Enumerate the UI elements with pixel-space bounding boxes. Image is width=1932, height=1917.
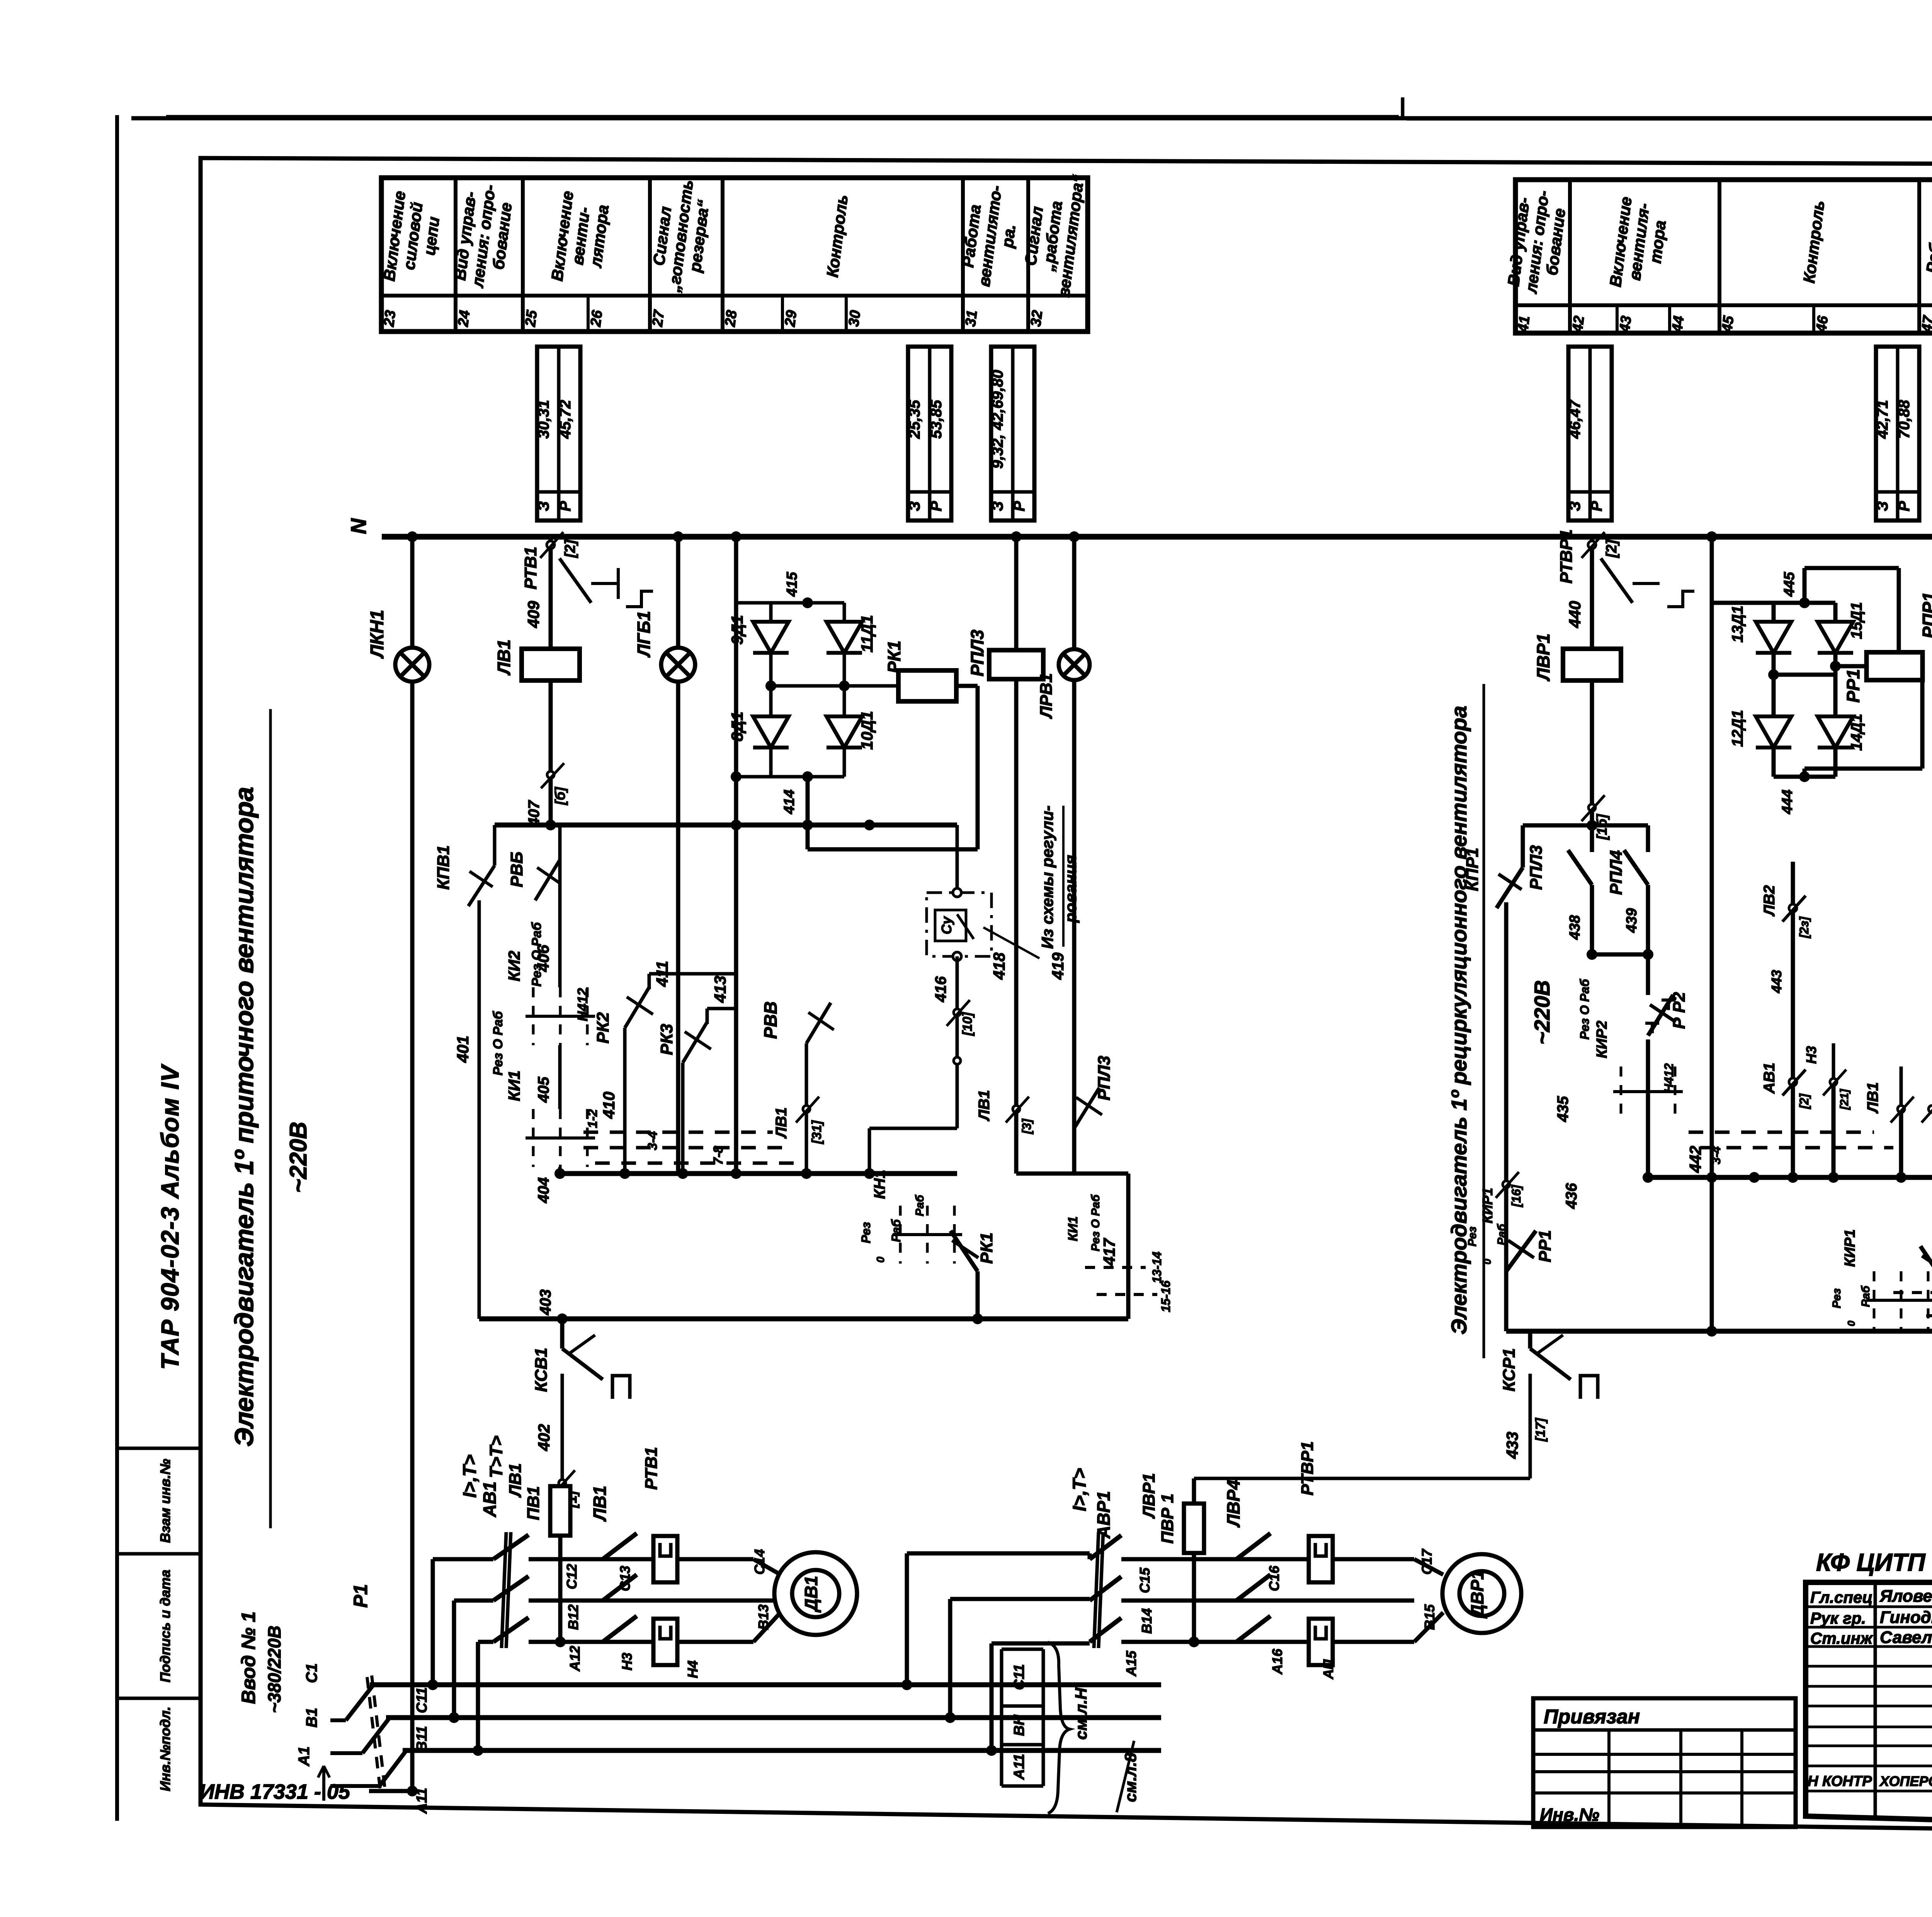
svg-text:С15: С15 [1137,1567,1153,1593]
motor ДВ1 [774,1552,857,1635]
contact РПЛ4 [1646,825,1650,852]
svg-text:27: 27 [650,309,668,328]
wire right bridge bottom elbow [1712,776,1774,777]
svg-text:А11: А11 [1011,1754,1027,1780]
svg-text:КФ ЦИТП инв 17331-05: КФ ЦИТП инв 17331-05 [1816,1548,1932,1576]
svg-text:0: 0 [1845,1320,1857,1326]
fuse ПВ1 [550,1486,570,1536]
wire tap В elbow to АВР1 [948,1599,952,1718]
dashed ticks 13-14 15-16 right [1893,1291,1932,1294]
svg-text:Электродвигатель 1º приточного: Электродвигатель 1º приточного вентилято… [230,787,259,1447]
svg-text:[10]: [10] [960,1012,975,1036]
svg-text:415: 415 [784,572,800,597]
phase line В11 [386,1715,1161,1720]
svg-text:28: 28 [722,309,740,328]
svg-text:[2]: [2] [562,539,578,558]
svg-text:Р: Р [1011,501,1028,511]
svg-text:КСР1: КСР1 [1500,1348,1519,1391]
svg-text:З: З [906,501,923,511]
svg-text:442: 442 [1686,1146,1704,1173]
wire row1 to motor [677,1557,753,1561]
contactor ЛВР1 blade 2 [1236,1575,1270,1601]
node 445 [1799,597,1810,608]
diode 12Д1 [1772,675,1776,717]
node bus ЛГБ1 junction [673,531,684,542]
frame outer left border line [115,115,119,1821]
svg-text:Н3: Н3 [619,1653,635,1670]
wire rail 404 horizontal [560,1171,957,1176]
wire РВВ branch lower [806,1043,807,1174]
svg-text:I>,Т>: I>,Т> [1070,1468,1090,1511]
switch Р1 blade 3 [379,1750,407,1786]
wire rail 436 horizontal right [1648,1175,1932,1180]
svg-text:Савелова: Савелова [1880,1628,1932,1647]
wire 405 segment [558,1045,562,1109]
wire 411 branch ЛГБ1 [676,537,680,1174]
wire rail 403 horizontal [479,1317,1128,1322]
wire right bridge bottom rail 444 [1774,775,1835,779]
wire ЛКН1 to feeder stub [407,1786,418,1796]
svg-text:Н3: Н3 [1803,1046,1819,1064]
svg-text:РВВ: РВВ [760,1001,781,1039]
contactor ЛВ1 blade 1 [603,1533,637,1559]
svg-text:КИ1: КИ1 [505,1070,523,1101]
circuit breaker АВР1 [1090,1535,1121,1559]
svg-text:Ст.инж: Ст.инж [1810,1629,1873,1647]
svg-text:РПР1: РПР1 [1919,592,1932,638]
svg-text:[2]: [2] [1797,1093,1811,1109]
wire bridge bottom elbow [736,775,771,779]
selector КИ1 Рез-О-Раб [526,1109,595,1167]
svg-text:ТАР 904-02-3 Альбом IV: ТАР 904-02-3 Альбом IV [156,1063,184,1370]
wire tap В12 [452,1601,456,1718]
svg-text:ПВ1: ПВ1 [524,1486,543,1520]
svg-text:445: 445 [1781,572,1798,597]
svg-text:ДВ1: ДВ1 [801,1576,821,1613]
contact РК1 to rail 403 [976,1271,980,1319]
svg-text:КИ1: КИ1 [1066,1216,1080,1241]
node tap С12 [427,1679,438,1690]
svg-text:РТВР1: РТВР1 [1557,529,1576,583]
contact РПЛ3 on 419 [1074,1128,1075,1174]
svg-text:10Д1: 10Д1 [858,711,876,750]
svg-text:1-2: 1-2 [585,1109,600,1128]
frame top border thick overscan segment [166,115,1399,118]
svg-text:[16]: [16] [1509,1184,1523,1207]
relay coil ЛВ1 [522,649,580,680]
wire tap С elbow to АВР1 [905,1553,909,1685]
contactor ЛВР1 blade 3 [1236,1616,1270,1642]
contact ЛВР1 aux right [1929,1106,1932,1112]
wire 418 branch [1014,537,1019,1174]
wire ЛКН1 branch vertical [410,537,415,1791]
svg-text:438: 438 [1567,915,1583,940]
node 415 [802,597,813,608]
svg-text:Ввод № 1: Ввод № 1 [238,1611,259,1704]
svg-text:32: 32 [1028,309,1046,327]
fuse ПВР1 [1184,1504,1204,1553]
svg-text:Рез: Рез [1830,1288,1843,1308]
svg-text:7-8: 7-8 [711,1146,726,1165]
svg-text:410: 410 [600,1092,618,1119]
node fuse tap on А12 row [555,1636,566,1647]
wire 439 segment [1646,885,1650,954]
reference table wires 30,31/45,72 [535,347,580,520]
svg-text:А16: А16 [1269,1648,1285,1675]
contact mark [1] on 402 [559,1480,566,1487]
svg-text:А15: А15 [1123,1650,1139,1677]
contact АВ1 [2] right [1791,862,1795,1177]
contact РВВ [805,1043,808,1174]
selector КН1 Рез-О-Раб with РК1 [893,1206,962,1264]
relay coil ЛВР1 [1563,649,1621,680]
wire КПВ1 branch [493,825,497,866]
wire 409 branch with РТВ1 [549,537,553,647]
svg-text:Р: Р [557,501,574,511]
svg-text:Рез О Раб: Рез О Раб [529,922,544,987]
diode 8Д1 [769,686,773,717]
wire 402 [561,1374,564,1509]
svg-text:44: 44 [1669,315,1687,333]
svg-text:30,31: 30,31 [535,400,552,439]
circuit breaker АВ1 [493,1535,529,1559]
wire row3 to motor right [1333,1640,1414,1644]
svg-text:[31]: [31] [810,1120,824,1144]
wire right bridge top rail 445 [1712,601,1835,605]
svg-text:Подпись и дата: Подпись и дата [157,1570,173,1682]
node bus ЛКН1 junction [407,531,418,542]
svg-text:Раб: Раб [1495,1223,1508,1245]
svg-text:ЛВ2: ЛВ2 [1761,885,1778,917]
svg-text:42: 42 [1570,315,1588,333]
brace см.л.Н [1048,1642,1070,1813]
wire tap А elbow to АВР1 [990,1643,994,1750]
svg-text:РК3: РК3 [657,1024,676,1055]
phase line А11 [403,1748,1161,1753]
control device Су dash-dot box [927,893,992,956]
wire РР1 return loop to node 444 [1920,666,1925,769]
wire 433 horizontal to ПВР1 [1194,1477,1530,1480]
svg-text:Н4: Н4 [685,1660,701,1678]
svg-text:45,72: 45,72 [557,400,574,439]
svg-text:КПВ1: КПВ1 [434,845,453,890]
contact mark [17] on 433 [1529,1405,1532,1408]
switch Р1 link bar [367,1677,381,1793]
lamp ЛКН1 [395,648,429,682]
wire 438-439 link [1592,953,1648,957]
svg-text:416: 416 [932,976,949,1002]
svg-text:ИНВ 17331 - 05: ИНВ 17331 - 05 [199,1780,350,1803]
svg-text:[17]: [17] [1533,1417,1548,1442]
contact Н3 [2] right [1830,1078,1837,1085]
svg-text:46: 46 [1813,315,1832,333]
svg-text:419: 419 [1049,952,1067,980]
motor ДВР1 [1442,1554,1521,1633]
node bus bridge feed junction [731,531,742,542]
diode 14Д1 [1833,675,1838,717]
svg-text:КСВ1: КСВ1 [532,1348,551,1392]
callout line to regulation scheme note [983,927,1039,958]
svg-text:439: 439 [1624,908,1640,933]
wire Су branch [956,825,959,893]
thermal РТВР1 element bottom [1309,1619,1333,1665]
svg-text:КИР2: КИР2 [1594,1021,1610,1058]
svg-text:31: 31 [963,309,981,327]
thermal РТВ1 element top [653,1536,677,1582]
switch КСВ1 [560,1319,565,1349]
bus N horizontal line [382,534,1932,540]
node rail-401 dots [545,820,556,830]
svg-text:Раб: Раб [913,1194,926,1216]
node tap В11 right motor [945,1712,956,1723]
reference table wires 9,32,42,69,80 [989,347,1034,520]
contact РПЛ3 right block [1590,825,1594,852]
svg-text:402: 402 [535,1424,553,1451]
wire КПВ1 down to rail 403 [478,900,481,1319]
wire rail 434 horizontal [1506,1329,1932,1334]
svg-text:30: 30 [846,309,864,327]
node rail-436 dots [1643,1172,1653,1183]
svg-text:11Д1: 11Д1 [858,615,876,652]
svg-text:КИР1: КИР1 [1842,1229,1858,1267]
svg-text:ЛВР1: ЛВР1 [1139,1473,1158,1519]
switch Р1 blade 2 [362,1717,390,1753]
contact РТВ1 thermal release [547,541,554,549]
svg-text:~380/220В: ~380/220В [264,1626,284,1713]
sidebar cell divider 1 [117,1447,201,1450]
sidebar cell divider 3 [117,1697,201,1700]
svg-text:В11: В11 [414,1726,430,1752]
svg-text:3-4: 3-4 [645,1131,660,1150]
svg-text:РПЛ4: РПЛ4 [1607,850,1626,895]
wire rail 437 horizontal [1523,823,1648,828]
svg-text:9Д1: 9Д1 [728,615,746,645]
svg-text:А12: А12 [567,1646,583,1672]
switch Р1 input stubs [330,1718,346,1722]
selector КИ2 Рез-О-Раб [526,987,595,1045]
svg-text:АВ1: АВ1 [1761,1063,1778,1094]
svg-text:Р: Р [1896,501,1913,511]
binding table Привязан [1533,1698,1796,1827]
svg-text:Рук гр.: Рук гр. [1810,1609,1866,1627]
wire 433 [1529,1374,1532,1478]
sidebar cell divider 2 [117,1552,201,1556]
wire bridge feed vertical 413 [734,537,738,1174]
svg-text:ЛГБ1: ЛГБ1 [634,611,654,658]
svg-text:РВБ: РВБ [507,852,526,887]
svg-text:435: 435 [1554,1096,1571,1122]
svg-text:I>,Т>: I>,Т> [460,1454,480,1498]
svg-text:~220В: ~220В [1530,980,1554,1045]
svg-text:КПР1: КПР1 [1463,848,1482,891]
pushbutton КПР1 [1521,825,1525,867]
node tap А12 [473,1745,483,1756]
wire 416 segment [956,956,959,1078]
svg-text:Рез: Рез [859,1222,873,1243]
diode 15Д1 [1833,603,1838,621]
wire 419 branch [1072,537,1077,1174]
svg-text:440: 440 [1566,601,1584,628]
svg-text:РР1: РР1 [1843,669,1863,703]
svg-text:ПВР 1: ПВР 1 [1158,1493,1177,1543]
wire row2 В15 [1121,1599,1414,1603]
contactor ЛВ1 blade 3 [603,1616,637,1642]
contact РВБ [535,860,560,900]
svg-text:Р: Р [928,501,945,511]
wire row1 С13 [529,1557,654,1561]
phase feeder stub А1 [369,1789,412,1793]
wire row3 А16 [1121,1640,1309,1644]
svg-text:24: 24 [455,309,473,328]
reference table wires 42,71/70,88 [1874,347,1919,520]
node bus ЛРВ1 junction [1069,531,1080,542]
svg-text:443: 443 [1769,970,1784,993]
wire row3 to motor [677,1640,753,1644]
svg-text:РПЛ3: РПЛ3 [1095,1056,1114,1101]
node bus right bridge junction [1706,531,1717,542]
contact ЛВ1 [1] [956,1078,959,1128]
wire 406 segment [558,825,562,987]
wire 442 feed vertical [1710,537,1714,1177]
svg-text:Рез О Раб: Рез О Раб [1578,978,1592,1039]
svg-text:В13: В13 [755,1604,771,1630]
svg-text:З: З [535,501,552,511]
svg-text:С11: С11 [1011,1664,1027,1690]
svg-text:13-14: 13-14 [1150,1252,1164,1283]
svg-text:3-4: 3-4 [1709,1146,1723,1164]
svg-text:15Д1: 15Д1 [1848,602,1865,639]
svg-text:[3]: [3] [1020,1118,1034,1134]
svg-text:25: 25 [522,309,541,328]
node bus РПЛ3 junction [1011,531,1022,542]
dashed link group left [583,1131,773,1134]
svg-text:ЛВ1: ЛВ1 [976,1090,993,1122]
svg-text:ЛКН1: ЛКН1 [367,610,388,659]
svg-text:РК1: РК1 [977,1233,996,1264]
svg-text:436: 436 [1563,1183,1580,1209]
svg-text:ХОПЕРСТКОВА: ХОПЕРСТКОВА [1879,1773,1932,1789]
svg-text:С14: С14 [752,1549,767,1575]
svg-text:25,35: 25,35 [906,400,923,439]
svg-text:Из схемы регули-: Из схемы регули- [1038,806,1056,949]
svg-text:Раб: Раб [1859,1285,1872,1307]
wire 445 top elbow [1803,568,1807,603]
svg-text:В12: В12 [565,1604,581,1630]
dashed link group right [1689,1131,1874,1134]
svg-text:Взам инв.№: Взам инв.№ [157,1459,173,1543]
svg-text:ЛВ1: ЛВ1 [590,1486,610,1522]
node tap С11 right motor [901,1679,912,1690]
svg-text:Рез: Рез [1466,1226,1479,1247]
svg-text:А11: А11 [414,1788,430,1814]
signal header table left block [380,173,1088,332]
label box ВН С11 АН [1000,1649,1003,1786]
svg-text:Инв.№: Инв.№ [1540,1805,1599,1825]
svg-text:ДВР1: ДВР1 [1467,1570,1487,1619]
relay coil РК1 [898,670,956,701]
contact ЛВ1 aux right [1898,1106,1905,1112]
svg-text:46,47: 46,47 [1566,399,1583,439]
svg-text:41: 41 [1515,315,1533,333]
svg-text:Яловецкий: Яловецкий [1879,1587,1932,1606]
svg-text:9,32, 42,69,80: 9,32, 42,69,80 [989,370,1006,469]
wire bridge top rail 415 [736,601,844,605]
svg-text:С16: С16 [1266,1565,1282,1591]
wire КПР1 branch down [1504,902,1509,1331]
contact mark [б] on wire 407 [547,771,554,778]
wire row2 В13 [529,1599,775,1603]
svg-text:[21]: [21] [1838,1089,1851,1110]
svg-text:ЛВР4: ЛВР4 [1223,1480,1243,1527]
wire 417 corner [1016,1172,1128,1176]
contact РР2 with КИР2 [1646,954,1650,995]
svg-text:[2]: [2] [1604,539,1620,558]
svg-text:см.л.Н: см.л.Н [1072,1687,1090,1740]
svg-text:[2з]: [2з] [1797,916,1811,939]
svg-text:42,71: 42,71 [1874,400,1891,439]
svg-text:403: 403 [537,1289,554,1316]
svg-text:417: 417 [1100,1238,1118,1266]
svg-text:43: 43 [1617,315,1635,333]
frame tick mark above top border [1401,97,1405,118]
svg-text:РПЛ3: РПЛ3 [1527,845,1546,890]
svg-text:ЛРВ1: ЛРВ1 [1037,673,1056,719]
svg-text:Р Р2: Р Р2 [1670,992,1689,1029]
svg-text:404: 404 [535,1177,552,1204]
svg-text:ЛВ1: ЛВ1 [1864,1082,1881,1114]
wire bridge bottom rail 414 [771,775,844,779]
svg-text:Р: Р [1588,501,1605,511]
svg-text:АП: АП [1320,1659,1336,1679]
pushbutton КПВ1 [468,866,495,906]
svg-text:23: 23 [381,309,399,328]
wire below ЛВР1 coil [1590,682,1594,825]
svg-text:С13: С13 [617,1566,633,1591]
svg-text:Н412: Н412 [575,988,590,1021]
phase line С11 [370,1682,1161,1687]
selector КИР1 Рез-О-Раб [1866,1271,1932,1329]
wire row1 С16 [1121,1557,1309,1561]
svg-text:0: 0 [874,1257,886,1263]
wire tap А12 [476,1642,480,1750]
svg-text:З: З [1874,501,1891,511]
svg-text:Р1: Р1 [350,1584,371,1607]
svg-text:В14: В14 [1139,1608,1155,1634]
svg-text:Н412: Н412 [1662,1063,1676,1093]
node tap А11 right motor [986,1745,997,1756]
svg-text:РПЛ3: РПЛ3 [967,629,987,676]
signal header table right block [1504,180,1932,333]
svg-text:РТВ1: РТВ1 [642,1447,661,1490]
relay coil РПЛ3 [989,650,1043,679]
svg-text:401: 401 [454,1036,472,1063]
svg-text:47: 47 [1919,314,1932,333]
wire РК1 to bridge [885,684,898,688]
wire tap С12 [431,1559,435,1685]
svg-text:АВР1: АВР1 [1094,1491,1114,1539]
svg-text:КИ2: КИ2 [505,951,523,981]
svg-text:444: 444 [1779,789,1796,814]
selector КИР2 Рез-О-Раб [1613,1067,1683,1117]
svg-text:РК1: РК1 [884,641,904,674]
diode 9Д1 [769,603,773,621]
svg-text:А1: А1 [296,1746,313,1766]
contact mark [1б] on ЛВР1 wire [1588,804,1595,811]
contact РТВР1 thermal release [1588,541,1596,549]
svg-text:РР1: РР1 [1536,1230,1554,1262]
svg-text:ВН: ВН [1011,1714,1027,1736]
svg-text:Раб: Раб [889,1219,903,1242]
